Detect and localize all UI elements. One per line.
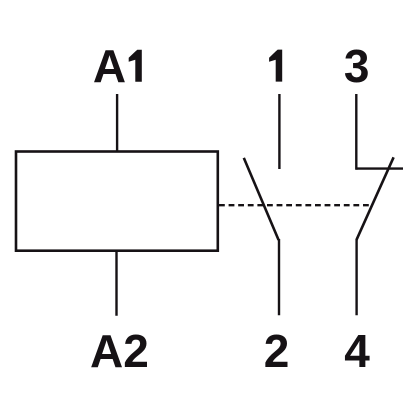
svg-text:A2: A2	[90, 325, 149, 377]
wire A2 lead	[115, 251, 117, 316]
contact NC fixed bar 3	[356, 167, 403, 169]
wire mechanical linkage (dashed)	[219, 204, 372, 206]
wire contact 3 top lead	[355, 94, 357, 170]
terminal label 1	[269, 50, 282, 82]
contact NO blade 1-2	[244, 158, 279, 240]
svg-text:3: 3	[344, 40, 370, 92]
wire contact 2 bottom lead	[278, 239, 280, 315]
svg-text:A: A	[93, 40, 126, 92]
coil K1 rectangle	[16, 152, 218, 251]
contact NC blade 3-4	[357, 157, 394, 240]
wire contact 4 bottom lead	[355, 239, 357, 315]
wire A1 lead	[116, 94, 118, 152]
wire contact 1 top lead	[278, 94, 280, 169]
svg-text:4: 4	[344, 325, 370, 377]
svg-text:2: 2	[264, 325, 290, 377]
